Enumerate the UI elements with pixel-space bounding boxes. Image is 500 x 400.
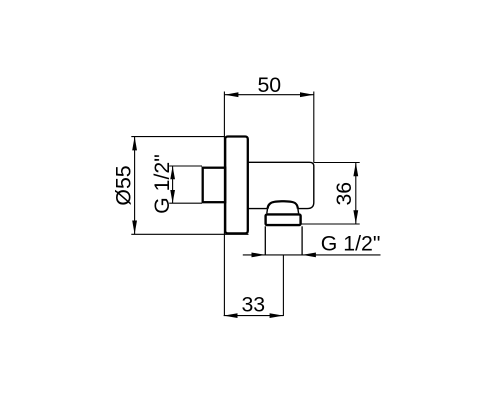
node: 36 up arrow — [353, 163, 358, 177]
wire: O55 dimension line — [134, 137, 136, 235]
component: wall flange (edge view) — [225, 137, 248, 234]
wire: dome right flare — [297, 209, 300, 214]
node: inlet G1/2 up arrow — [170, 166, 175, 179]
component: inlet thread square — [203, 168, 226, 203]
svg-text:33: 33 — [241, 293, 265, 317]
node: O55 top arrow — [132, 137, 137, 151]
component: elbow body outline — [248, 162, 314, 208]
svg-text:Ø55: Ø55 — [112, 165, 136, 205]
svg-text:36: 36 — [332, 182, 356, 206]
node: inlet G1/2 down arrow — [170, 190, 175, 203]
wire: 33 dimension line — [224, 315, 284, 317]
wire: inlet G1/2 top extension line — [169, 165, 202, 167]
wire: dome left flare — [266, 209, 269, 214]
wire: extension line right of 50 (body right) — [313, 92, 315, 163]
node: pipe right arrow — [302, 253, 316, 258]
wire: 36 top extension line — [314, 162, 360, 164]
svg-text:G 1/2": G 1/2" — [150, 154, 174, 214]
wire: O55 top extension line — [131, 136, 225, 138]
svg-text:G 1/2": G 1/2" — [321, 231, 381, 255]
wire: inlet G1/2 bottom extension line — [169, 202, 202, 204]
node: 50 left arrow — [225, 92, 239, 97]
wire: 36 bottom extension line — [302, 223, 360, 225]
wire: O55 bottom extension line — [131, 233, 248, 235]
svg-text:50: 50 — [257, 73, 281, 97]
node: 50 right arrow — [300, 92, 314, 97]
wire: inlet G1/2 dimension line — [172, 166, 174, 203]
component: outlet ring nut — [266, 214, 301, 225]
component: outlet pipe right edge — [301, 226, 303, 255]
node: 33 left arrow — [224, 313, 238, 318]
component: outlet pipe left edge — [264, 226, 266, 255]
wire: extension line left of 50/33 (wall plane) — [223, 92, 225, 317]
wire: 36 dimension line — [355, 163, 357, 225]
wire: pipe centre extension line — [282, 255, 284, 316]
wire: 50 dimension line — [225, 94, 314, 96]
component: dome of outlet elbow — [268, 201, 298, 209]
node: O55 bottom arrow — [132, 221, 137, 235]
wire: pipe G1/2 dimension line — [243, 254, 381, 256]
node: 33 right arrow — [270, 313, 284, 318]
node: pipe left arrow — [252, 253, 266, 258]
node: 36 down arrow — [353, 210, 358, 224]
